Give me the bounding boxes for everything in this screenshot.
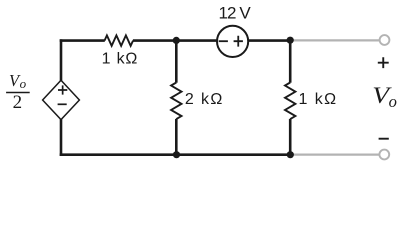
resistor R1 1 kΩ (top horizontal zigzag) [105, 35, 134, 45]
label: Vo/2 (dependent source value, fraction) [6, 71, 30, 113]
polarity mark: - at output bottom [379, 138, 389, 140]
node: junction dot bottom middle [173, 151, 180, 158]
resistor R3 1 kΩ (right vertical zigzag) [285, 83, 295, 120]
resistor R2 2 kΩ (middle vertical zigzag) [171, 83, 181, 120]
polarity mark: + at output top [378, 57, 389, 68]
wire: left vertical segment (dependent source down to bottom corner) [60, 119, 63, 156]
node: junction dot top middle [173, 37, 180, 44]
wire: bottom horizontal segment [60, 153, 291, 156]
terminal: open circle, top right output [380, 35, 390, 45]
svg-text:2 kΩ: 2 kΩ [185, 91, 224, 108]
wire: open-circuit gray lead, top right [290, 39, 380, 41]
wire: middle vertical branch upper segment [175, 41, 178, 83]
svg-text:1 kΩ: 1 kΩ [299, 91, 338, 108]
wire: top segment from 12V source to right node [248, 39, 290, 42]
wire: open-circuit gray lead, bottom right [290, 153, 379, 155]
svg-text:o: o [389, 92, 397, 111]
dependent voltage source E1 Vo/2 (diamond with + -) [43, 80, 80, 119]
svg-text:2: 2 [13, 92, 23, 113]
wire: top segment from R1 to 12V source [133, 39, 217, 42]
wire: right vertical branch lower segment [289, 119, 292, 155]
wire: top-left horizontal segment from left corner to R1 [60, 39, 105, 42]
wire: middle vertical branch lower segment [175, 119, 178, 155]
label: Vo (output voltage) [372, 83, 397, 111]
node: junction dot bottom right [287, 151, 294, 158]
svg-text:12 V: 12 V [219, 4, 252, 23]
terminal: open circle, bottom right output [379, 150, 389, 160]
wire: left vertical segment (top corner down to dependent source) [60, 39, 63, 80]
svg-text:1 kΩ: 1 kΩ [102, 51, 139, 68]
svg-text:o: o [20, 76, 27, 91]
voltage source U1 12 V (circle with - +) [217, 26, 248, 57]
wire: right vertical branch upper segment [289, 41, 292, 83]
node: junction dot top right [287, 37, 294, 44]
